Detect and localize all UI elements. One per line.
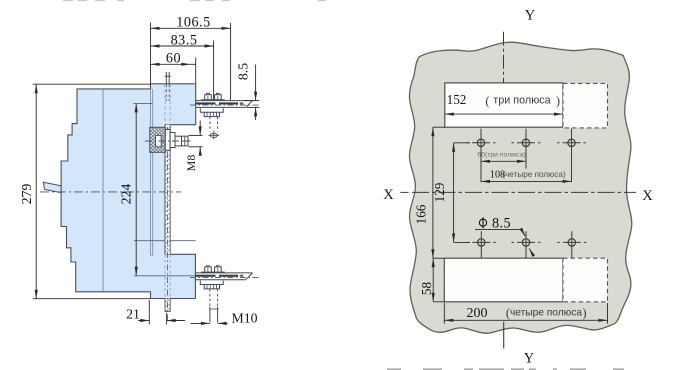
Y axis bottom xyxy=(503,322,505,349)
M8 bolt end xyxy=(182,136,189,146)
bottom terminal busbar xyxy=(195,272,252,274)
svg-text:279: 279 xyxy=(19,184,34,205)
bottom cutout (four poles) xyxy=(444,258,563,302)
cropped caption bottom edge xyxy=(387,368,401,370)
svg-text:): ) xyxy=(556,94,560,108)
dimension 129 connectors xyxy=(454,142,470,144)
dimension 200 extension lines xyxy=(443,303,445,324)
bottom terminal centre line xyxy=(190,276,260,278)
M8 washer 2 xyxy=(170,133,175,148)
svg-text:M8: M8 xyxy=(184,155,198,172)
224 bottom reference line xyxy=(134,275,196,277)
dimension M10 xyxy=(191,322,210,324)
mounting hole row2 #2 xyxy=(522,239,529,246)
phi 8.5 leader xyxy=(475,229,522,231)
dimension 152 xyxy=(445,113,563,115)
hidden panel edge (lower) xyxy=(164,254,166,298)
svg-text:166: 166 xyxy=(413,204,428,224)
dimension 279 xyxy=(35,84,37,299)
M8 bolt hex nut xyxy=(150,127,166,152)
dimension 8.5 extension lines xyxy=(244,100,259,102)
svg-text:224: 224 xyxy=(119,184,134,205)
Y axis top xyxy=(503,32,505,83)
top terminal flange xyxy=(201,99,225,101)
mounting panel strip (hatched) xyxy=(165,125,170,255)
lower stud centre line xyxy=(134,240,196,242)
top terminal bolt end cross xyxy=(210,133,217,137)
mounting hole row1 #1 xyxy=(477,139,484,146)
svg-text:): ) xyxy=(582,306,586,320)
top terminal clamp xyxy=(200,108,223,112)
label phi 8.5 xyxy=(479,219,486,226)
svg-text:M10: M10 xyxy=(231,310,257,325)
body internal seam line xyxy=(102,89,104,291)
dimension M8 arrows xyxy=(199,121,201,136)
dimension 166 connectors xyxy=(433,126,445,128)
mounting hole row2 #3 xyxy=(568,239,575,246)
dimension 200 xyxy=(444,319,607,321)
svg-text:60(три полюса): 60(три полюса) xyxy=(477,152,525,159)
top terminal hanging bolt xyxy=(209,117,211,132)
svg-text:8.5: 8.5 xyxy=(492,215,511,231)
circuit breaker body (side view) xyxy=(61,84,196,299)
mounting hole row2 #1 xyxy=(478,239,485,246)
svg-text:58: 58 xyxy=(419,282,434,296)
bottom terminal screw 2 xyxy=(215,266,222,273)
dimension 60 holes xyxy=(481,160,526,162)
224 top reference line xyxy=(134,102,153,104)
hidden panel edge (upper) xyxy=(164,84,166,124)
bottom terminal clamp xyxy=(200,281,223,285)
svg-text:21: 21 xyxy=(126,306,140,321)
dimension 8.5 arrows xyxy=(255,65,257,101)
svg-text:(: ( xyxy=(485,94,489,108)
dimension 58 connector xyxy=(433,301,444,303)
X axis xyxy=(400,191,408,193)
svg-text:106.5: 106.5 xyxy=(176,15,210,31)
dimension 58 xyxy=(432,258,434,302)
M8 bolt centre line xyxy=(145,140,191,142)
svg-text:три полюса: три полюса xyxy=(493,95,550,107)
dimension 83.5 extension line xyxy=(213,41,215,101)
bottom terminal screw 1 xyxy=(205,266,212,273)
top terminal busbar xyxy=(196,100,253,102)
top terminal screw 1 xyxy=(205,93,212,100)
front cover slot xyxy=(150,89,152,256)
svg-text:83.5: 83.5 xyxy=(171,33,198,49)
top terminal screw 2 xyxy=(215,93,222,100)
top cutout dashed extension xyxy=(563,83,608,128)
dimension 129 xyxy=(453,143,455,243)
dimension 279 extension lines xyxy=(33,83,151,85)
svg-text:(четыре полюса): (четыре полюса) xyxy=(502,170,566,179)
dimension 83.5 xyxy=(151,45,214,47)
cropped text top edge xyxy=(63,0,73,1)
M8 bolt shaft xyxy=(175,136,182,146)
bottom terminal flange xyxy=(201,271,225,273)
svg-text:Y: Y xyxy=(524,351,535,367)
dimension 224 xyxy=(135,103,137,275)
bottom terminal M10 bolt xyxy=(209,307,211,323)
breaker toggle handle xyxy=(43,182,61,192)
M8 washer 1 xyxy=(165,130,170,151)
mounting panel (torn edges) xyxy=(409,42,631,333)
panel reference dash-dot line xyxy=(166,127,168,322)
mounting hole row1 #3 xyxy=(568,139,575,146)
svg-text:X: X xyxy=(642,188,653,204)
dimension 166 xyxy=(432,127,434,258)
bottom terminal M10 bolt hidden part xyxy=(209,289,211,307)
svg-text:60: 60 xyxy=(166,51,181,67)
dimension 21 xyxy=(138,320,149,322)
svg-text:Y: Y xyxy=(525,8,536,24)
dimension 108 holes xyxy=(481,180,572,182)
handle centre line xyxy=(40,191,181,193)
svg-text:152: 152 xyxy=(447,92,467,107)
bottom cutout dashed extension xyxy=(563,258,608,302)
top terminal centre line xyxy=(190,104,260,106)
mounting hole row1 #2 xyxy=(522,139,529,146)
svg-text:129: 129 xyxy=(432,182,447,202)
dimension 106.5 xyxy=(151,27,231,29)
top cutout (three poles) xyxy=(445,83,563,127)
mounting panel strip lower segment xyxy=(165,299,171,312)
svg-text:четыре полюса: четыре полюса xyxy=(510,308,582,319)
dimension 60 extension line xyxy=(195,58,197,84)
svg-text:X: X xyxy=(383,187,394,203)
dimension 21 extension lines xyxy=(148,300,150,325)
top mounting stud xyxy=(165,72,167,84)
dimension 60 xyxy=(151,63,191,65)
dimension 106.5 extension lines xyxy=(150,23,152,85)
svg-text:200: 200 xyxy=(467,306,488,321)
dimension M8 extension lines xyxy=(189,134,203,136)
svg-text:8.5: 8.5 xyxy=(236,63,251,80)
